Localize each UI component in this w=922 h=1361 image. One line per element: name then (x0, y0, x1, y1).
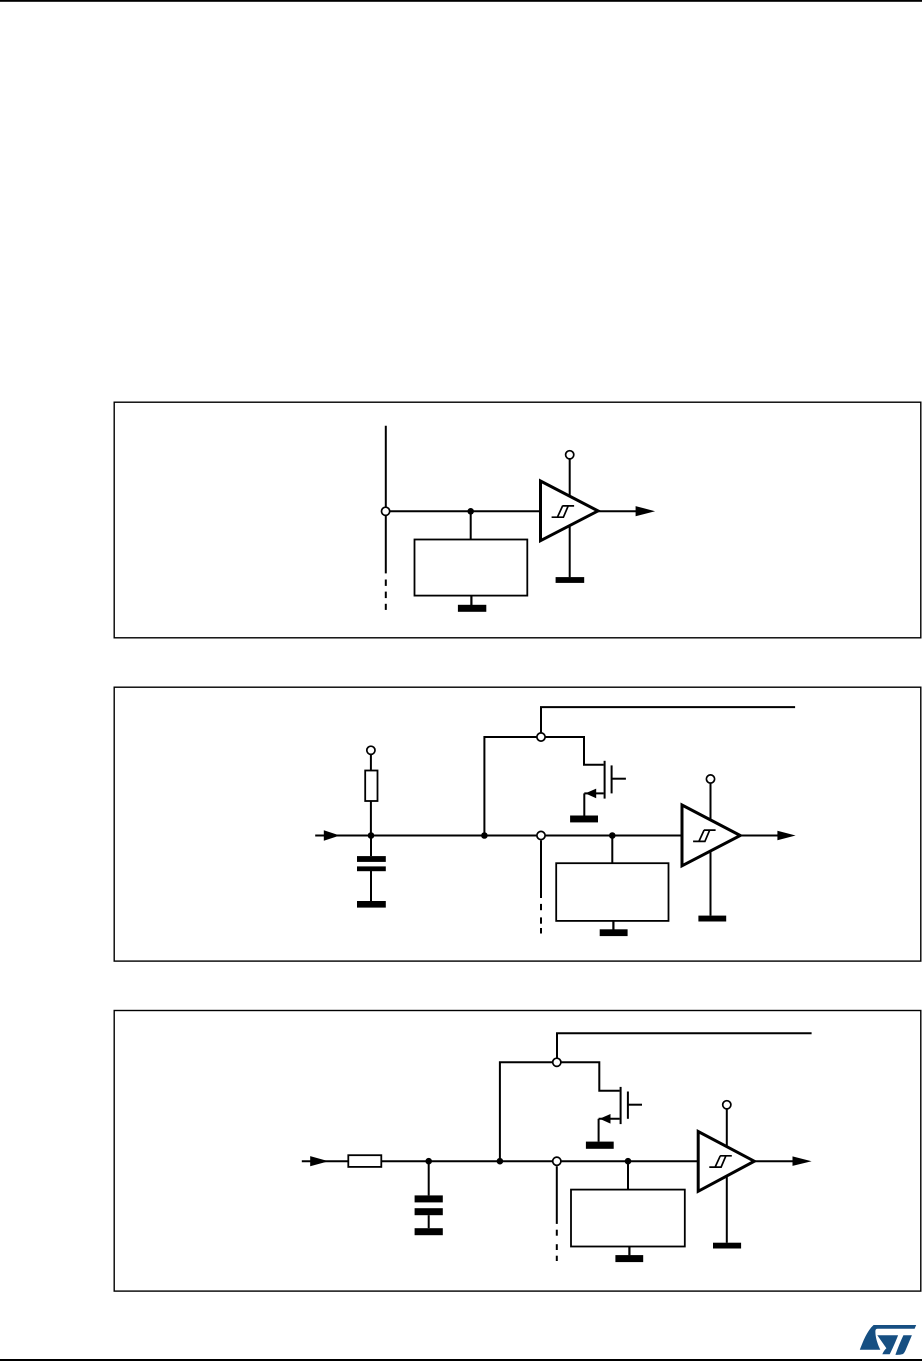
wire: stub into filter block (627, 1161, 629, 1189)
input arrow (324, 830, 340, 840)
supply node (open circle) (537, 733, 545, 741)
capacitor C2 (415, 1161, 443, 1228)
filter block U5 (571, 1190, 685, 1247)
wire: supply to MOSFET drain (561, 1062, 620, 1091)
capacitor C1 (357, 838, 386, 901)
Schmitt trigger supply node (open circle) (723, 1101, 731, 1109)
pad node (open circle) (382, 507, 390, 515)
wire: output (754, 1160, 806, 1162)
ground under Schmitt trigger (698, 916, 726, 922)
dashed continuation line below pad node (540, 841, 542, 934)
output arrow (636, 506, 656, 516)
wire: stub into block (470, 511, 472, 539)
wire: main input net (302, 1160, 698, 1162)
wire: main input net (315, 835, 682, 837)
pull-up resistor R1 (365, 755, 377, 833)
wire: pad lower stub (385, 515, 387, 573)
ground under MOSFET Q2 (586, 1142, 614, 1149)
supply rail wire (557, 1033, 812, 1058)
wire: supply to pull-up left leg (484, 737, 537, 836)
ground under Schmitt trigger (713, 1243, 741, 1249)
junction dot (filter stub) (609, 832, 616, 839)
ground under filter block U5 (615, 1247, 643, 1263)
pad node (open circle) on main net (537, 831, 545, 839)
resistor R1 supply node (open circle) (367, 746, 375, 754)
MOSFET source arrow (600, 1114, 611, 1124)
ground under Schmitt trigger (556, 577, 585, 583)
ground under filter block U3 (600, 921, 628, 936)
Schmitt trigger U4 (682, 805, 740, 866)
pad node (open circle) on main net (553, 1157, 561, 1165)
wire: stub into filter block (611, 836, 613, 864)
Schmitt trigger supply wire (710, 783, 712, 916)
ST logo (860, 1325, 916, 1355)
output arrow (777, 831, 795, 841)
ground under capacitor C1 (357, 901, 386, 908)
ground under block U1 (458, 596, 486, 612)
page header rule (0, 0, 922, 2)
Schmitt trigger supply wire (726, 1109, 728, 1243)
wire: supply to MOSFET drain (545, 737, 604, 765)
junction dot (cap node) (425, 1158, 432, 1165)
wire: output (598, 510, 650, 512)
Schmitt trigger supply node (open circle) (566, 451, 574, 459)
Schmitt trigger U6 (698, 1132, 754, 1192)
input arrow (310, 1156, 328, 1166)
output arrow (793, 1156, 812, 1166)
junction dot (filter stub) (625, 1158, 632, 1165)
junction dot (resistor/cap node) (368, 832, 375, 839)
Schmitt trigger supply wire (569, 459, 571, 578)
page footer rule (0, 1359, 922, 1361)
ground under MOSFET Q1 (570, 816, 598, 823)
dashed continuation line below pad node (556, 1166, 558, 1261)
series resistor R2 (348, 1155, 381, 1167)
wire: input net to Schmitt trigger (390, 510, 541, 512)
dashed continuation line (385, 580, 387, 610)
block U1 (415, 540, 528, 596)
wire: output (740, 835, 790, 837)
wire: supply to pull-up left leg (500, 1062, 553, 1161)
junction dot (467, 508, 474, 515)
Schmitt trigger U2 (541, 481, 599, 541)
MOSFET Q2 (599, 1087, 642, 1142)
MOSFET Q1 (584, 761, 626, 816)
supply rail wire (541, 707, 795, 733)
wire: pad vertical stub (385, 426, 387, 508)
filter block U3 (556, 863, 668, 921)
junction dot (pull-up leg) (481, 832, 488, 839)
junction dot (pull-up leg) (497, 1158, 504, 1165)
ground under capacitor C2 (415, 1228, 443, 1235)
supply node (open circle) (553, 1058, 561, 1066)
Schmitt trigger supply node (open circle) (706, 775, 714, 783)
MOSFET source arrow (585, 789, 596, 799)
